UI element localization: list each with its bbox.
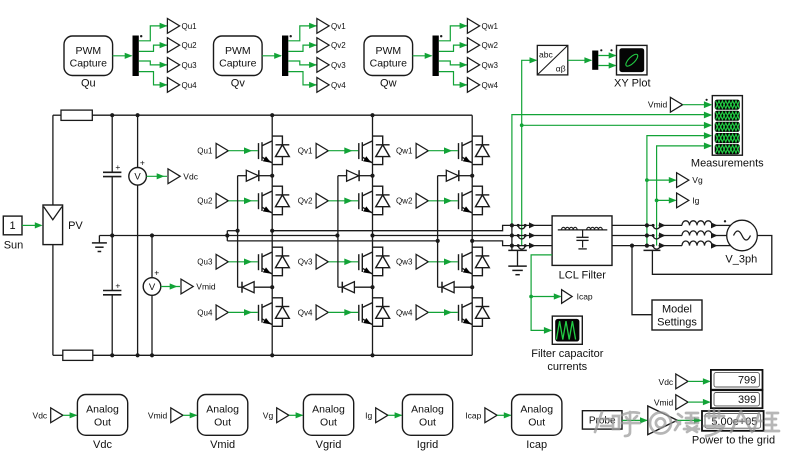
wire demux to tag Qv4 — [288, 72, 317, 85]
svg-text:PWM: PWM — [75, 45, 101, 57]
tap junction — [510, 233, 514, 237]
svg-text:currents: currents — [547, 361, 587, 373]
current sensor (grid side) — [653, 236, 660, 240]
voltage taps before LCL — [511, 225, 513, 250]
clamp diode Dw5 — [438, 175, 447, 177]
goto tag Qv2 — [317, 38, 329, 53]
svg-text:Out: Out — [320, 416, 337, 428]
clamp diode Du6 — [238, 286, 242, 288]
svg-text:Qu2: Qu2 — [182, 41, 198, 50]
wire neutral to leg-u clamp — [227, 230, 237, 232]
scope screen 5 with waveform — [715, 144, 740, 154]
wire demux to tag Qu2 — [139, 45, 168, 51]
wire to grid source — [718, 224, 731, 226]
svg-text:Icap: Icap — [526, 439, 547, 451]
phase v output line — [373, 235, 553, 237]
wire demux to XY plot X — [598, 55, 615, 57]
clamp diode Du5 — [238, 175, 247, 177]
svg-text:Settings: Settings — [657, 317, 697, 329]
wire Vdc to Analog Out — [63, 414, 77, 416]
gate wire Qw4 — [428, 311, 458, 313]
demux bar for Qu — [133, 36, 139, 77]
IGBT Qw2 with antiparallel diode — [459, 186, 490, 215]
svg-text:Qv1: Qv1 — [298, 147, 313, 156]
from tag Qw1 — [416, 143, 428, 158]
svg-text:Capture: Capture — [219, 58, 257, 70]
svg-text:Vgrid: Vgrid — [316, 439, 342, 451]
gate wire Qw3 — [428, 261, 458, 263]
wire neutral rail — [99, 235, 337, 237]
Analog Out block Igrid — [402, 395, 452, 436]
goto tag Qu1 — [167, 19, 179, 34]
junction neutral / Vmid — [150, 233, 154, 237]
ground (DC link midpoint) — [98, 236, 100, 243]
svg-text:Analog: Analog — [206, 404, 239, 416]
wire to grid source — [718, 245, 731, 247]
wire PV top to rail — [52, 115, 54, 205]
current sensor (inverter side) — [518, 236, 525, 240]
svg-text:Qw4: Qw4 — [396, 308, 413, 317]
from tag Qv4 — [316, 305, 328, 320]
scope screen 3 with waveform — [715, 122, 740, 132]
junction bottom rail / Vdc — [136, 353, 140, 357]
PV array block — [43, 205, 63, 245]
svg-text:abc: abc — [539, 50, 553, 60]
junction Icap branch — [529, 295, 533, 299]
measurement wire: grid voltage to Measurements 4 — [647, 136, 705, 246]
resistor R1 on top rail — [61, 110, 92, 120]
wire to grid source — [718, 235, 728, 237]
wire demux to tag Qw3 — [439, 61, 468, 65]
svg-text:Vdc: Vdc — [183, 171, 198, 181]
svg-text:Qu4: Qu4 — [182, 81, 198, 90]
wire to Ig tag — [657, 199, 676, 201]
Filter capacitor currents scope — [552, 316, 582, 344]
wire neutral to leg-w clamp — [227, 240, 437, 242]
svg-text:Icap: Icap — [465, 410, 481, 420]
junction Ig branch — [655, 199, 659, 203]
Model Settings block — [652, 300, 702, 330]
voltmeter Vmid — [151, 236, 153, 278]
Measurements scope block — [712, 96, 742, 156]
wire Qv to demux — [262, 55, 281, 57]
flow arrow — [659, 243, 666, 249]
svg-text:Qv2: Qv2 — [298, 197, 313, 206]
from tag Qu4 — [216, 305, 228, 320]
demux bar for Qw — [433, 36, 439, 77]
wire demux to tag Qw2 — [439, 45, 468, 51]
capacitor C1 (upper DC link) — [111, 115, 113, 172]
svg-text:Qw3: Qw3 — [396, 258, 413, 267]
svg-text:Analog: Analog — [411, 404, 444, 416]
phase w output line — [472, 241, 552, 246]
wire to Icap tag — [531, 296, 561, 298]
wire Qw to demux — [413, 55, 432, 57]
gate wire Qv2 — [328, 200, 358, 202]
svg-text:LCL Filter: LCL Filter — [559, 269, 607, 281]
svg-text:Vg: Vg — [263, 410, 274, 420]
svg-text:+: + — [115, 280, 120, 290]
PWM Capture block Qw — [364, 36, 413, 76]
clamp diode Dw6 — [438, 286, 442, 288]
svg-text:Qu1: Qu1 — [197, 147, 213, 156]
svg-text:Out: Out — [419, 416, 436, 428]
from tag Qu2 — [216, 193, 228, 208]
ground (filter sensor reference) — [508, 249, 527, 251]
svg-text:Measurements: Measurements — [691, 157, 764, 169]
svg-text:Vmid: Vmid — [654, 398, 674, 408]
wire top rail — [53, 114, 61, 116]
svg-text:Qw3: Qw3 — [482, 61, 499, 70]
leg w chain wire — [471, 115, 473, 355]
svg-text:Out: Out — [94, 416, 111, 428]
grid neutral return wire — [652, 236, 771, 275]
IGBT Qu3 with antiparallel diode — [259, 247, 290, 276]
tap junction — [510, 244, 514, 248]
wire bottom rail — [53, 354, 63, 356]
display Power value — [702, 411, 764, 431]
PWM Capture block Qv — [214, 36, 263, 76]
from tag Qu1 — [216, 143, 228, 158]
flow arrow — [529, 233, 536, 239]
goto tag Icap — [562, 290, 573, 304]
display Vmid value 399 — [711, 390, 763, 408]
svg-text:PWM: PWM — [225, 45, 251, 57]
wire demux to tag Qw4 — [439, 72, 468, 85]
leg v chain wire — [372, 115, 374, 355]
svg-text:Ig: Ig — [365, 410, 372, 420]
goto tag Qu2 — [167, 38, 179, 53]
svg-text:+: + — [154, 268, 159, 278]
wire demux to tag Qu1 — [139, 26, 168, 41]
clamp diode Dv6 — [338, 286, 342, 288]
from tag Qv3 — [316, 254, 328, 269]
clamp rail leg w — [437, 176, 439, 288]
svg-text:Qw1: Qw1 — [396, 147, 413, 156]
flow arrow — [529, 243, 536, 249]
wire demux to tag Qu3 — [139, 61, 168, 65]
wire demux to tag Qw1 — [439, 26, 468, 41]
junction bottom rail — [270, 353, 274, 357]
wire abc to demux bar — [568, 59, 591, 61]
goto tag Qv1 — [317, 19, 329, 34]
node between Q3/Q4 — [270, 285, 274, 289]
svg-text:Ig: Ig — [692, 195, 699, 205]
IGBT Qw4 with antiparallel diode — [459, 298, 490, 327]
Probe block — [582, 411, 622, 429]
wire demux to tag Qu4 — [139, 72, 168, 85]
junction neutral at leg-u clamp — [236, 229, 240, 233]
clamp rail leg u — [237, 176, 239, 288]
svg-text:Qv3: Qv3 — [298, 258, 313, 267]
svg-text:399: 399 — [738, 394, 756, 406]
svg-text:Capture: Capture — [370, 58, 408, 70]
flow arrow — [711, 233, 718, 239]
gain block (power scaling) — [648, 406, 677, 435]
node between Q1/Q2 — [270, 174, 274, 178]
wire Vmid to display — [688, 401, 704, 403]
svg-text:Vdc: Vdc — [659, 377, 674, 387]
IGBT Qu4 with antiparallel diode — [259, 298, 290, 327]
junction top rail — [370, 113, 374, 117]
junction bottom rail / Vmid — [150, 353, 154, 357]
junction neutral at leg-w clamp — [436, 239, 440, 243]
svg-text:Analog: Analog — [86, 404, 119, 416]
node between Q3/Q4 — [370, 285, 374, 289]
svg-text:V: V — [134, 172, 141, 183]
svg-text:αβ: αβ — [556, 64, 566, 74]
goto tag Qv4 — [317, 78, 329, 93]
IGBT Qv2 with antiparallel diode — [359, 186, 390, 215]
IGBT Qv1 with antiparallel diode — [359, 136, 390, 165]
goto tag Ig — [677, 193, 689, 208]
tap junction (grid) — [645, 244, 649, 248]
wire Vdc meter to tag — [146, 175, 167, 177]
wire Vdc to display — [688, 380, 704, 382]
svg-text:Power to the grid: Power to the grid — [692, 435, 775, 447]
junction top rail / C1 — [110, 113, 114, 117]
svg-text:Vmid: Vmid — [196, 282, 216, 292]
IGBT Qu1 with antiparallel diode — [259, 136, 290, 165]
svg-text:Model: Model — [662, 304, 692, 316]
scope screen 2 with waveform — [715, 111, 740, 121]
from tag Vmid — [670, 97, 682, 112]
wire Qu to demux — [113, 55, 132, 57]
gate wire Qw1 — [428, 150, 458, 152]
from tag Qv1 — [316, 143, 328, 158]
junction on measurement wire — [520, 123, 524, 127]
svg-text:Vg: Vg — [692, 175, 703, 185]
measurement wire: sensor bus up to abc block, branch to Measurements 3 — [522, 60, 537, 245]
svg-text:XY Plot: XY Plot — [614, 78, 651, 90]
wire demux to tag Qv2 — [288, 45, 317, 51]
svg-text:Vdc: Vdc — [93, 439, 112, 451]
display Vdc value 799 — [711, 370, 763, 390]
junction bottom rail / C2 — [110, 353, 114, 357]
svg-text:Qu3: Qu3 — [197, 258, 213, 267]
input block Sun (constant 1) — [3, 216, 22, 235]
gate wire Qw2 — [428, 200, 458, 202]
flow arrow — [659, 233, 666, 239]
goto tag Qu4 — [167, 78, 179, 93]
voltmeter Vdc — [137, 115, 139, 167]
goto tag Qw4 — [467, 78, 479, 93]
Icap measurement wire from LCL Filter — [531, 255, 552, 331]
node between Q1/Q2 — [370, 174, 374, 178]
svg-text:PV: PV — [68, 220, 83, 232]
goto tag Vmid (meter) — [181, 279, 193, 294]
svg-text:+: + — [140, 157, 145, 167]
tap junction — [510, 223, 514, 227]
wire Vmid to Analog Out — [183, 414, 197, 416]
Analog Out block Vdc — [77, 395, 127, 436]
wire Icap to Analog Out — [497, 414, 511, 416]
wire to Model Settings (solver) — [630, 244, 634, 248]
svg-text:Qv3: Qv3 — [331, 61, 346, 70]
from tag Qw2 — [416, 193, 428, 208]
svg-text:V_3ph: V_3ph — [725, 254, 757, 266]
three-phase grid source V_3ph — [727, 220, 758, 251]
from tag Qw4 — [416, 305, 428, 320]
svg-text:Qw: Qw — [380, 78, 397, 90]
wire demux to tag Qv3 — [288, 61, 317, 65]
svg-text:Qw4: Qw4 — [482, 81, 499, 90]
wire demux to XY plot Y — [598, 65, 615, 67]
wire Probe to gain — [622, 419, 647, 421]
gate wire Qv3 — [328, 261, 358, 263]
XY Plot scope — [617, 45, 648, 75]
tap junction (grid) — [645, 223, 649, 227]
gate wire Qu1 — [228, 150, 257, 152]
from tag Qv2 — [316, 193, 328, 208]
svg-text:Qu3: Qu3 — [182, 61, 198, 70]
wire top rail — [92, 114, 472, 116]
output node phase v — [370, 233, 374, 237]
LCL Filter block — [552, 216, 612, 266]
gate wire Qv4 — [328, 311, 358, 313]
goto tag Qu3 — [167, 58, 179, 73]
wire to Vg tag — [647, 179, 676, 181]
Analog Out block Vmid — [198, 395, 248, 436]
wire Vmid meter to tag — [161, 286, 180, 288]
junction top rail — [270, 113, 274, 117]
svg-text:Qw2: Qw2 — [396, 197, 413, 206]
gate wire Qv1 — [328, 150, 358, 152]
svg-text:Qw1: Qw1 — [482, 22, 499, 31]
inductor (grid coupling) — [682, 241, 712, 246]
wire bottom rail — [93, 354, 472, 356]
svg-text:Qv1: Qv1 — [331, 22, 346, 31]
PWM Capture block Qu — [64, 36, 113, 76]
svg-text:Icap: Icap — [577, 292, 593, 302]
Analog Out block Vgrid — [303, 395, 353, 436]
svg-text:Qv4: Qv4 — [331, 81, 346, 90]
tap junction (grid) — [645, 233, 649, 237]
svg-text:799: 799 — [738, 375, 756, 387]
svg-text:Analog: Analog — [520, 404, 553, 416]
current sensor (grid side) — [653, 225, 660, 229]
phase u output line — [272, 225, 552, 230]
wire PV bottom to rail — [52, 245, 54, 356]
IGBT Qw3 with antiparallel diode — [459, 247, 490, 276]
grid lines after LCL — [612, 224, 647, 226]
svg-text:Qu4: Qu4 — [197, 308, 213, 317]
node between Q1/Q2 — [470, 174, 474, 178]
flow arrow — [711, 222, 718, 228]
goto tag Qw1 — [467, 19, 479, 34]
wire gain to display — [677, 419, 695, 421]
svg-text:Filter capacitor: Filter capacitor — [531, 348, 603, 360]
junction neutral / C1 — [110, 233, 114, 237]
current sensor (grid side) — [653, 246, 660, 250]
watermark (Zhihu user) — [595, 410, 779, 436]
IGBT Qu2 with antiparallel diode — [259, 186, 290, 215]
goto tag Qw3 — [467, 58, 479, 73]
from tag Qw3 — [416, 254, 428, 269]
gate wire Qu2 — [228, 200, 257, 202]
IGBT Qw1 with antiparallel diode — [459, 136, 490, 165]
junction neutral at leg-v clamp — [335, 233, 339, 237]
flow arrow — [711, 243, 718, 249]
wire branch to Measurements 3 — [522, 124, 705, 126]
measurement wire: grid current to Measurements 5 — [657, 146, 705, 246]
clamp rail leg v — [337, 176, 339, 288]
Analog Out block Icap — [512, 395, 562, 436]
current sensor (inverter side) — [518, 246, 525, 250]
demux bar for XY plot — [592, 51, 598, 70]
capacitor C2 (lower DC link) — [111, 236, 113, 291]
svg-text:Vdc: Vdc — [33, 410, 48, 420]
svg-text:Qu1: Qu1 — [182, 22, 198, 31]
wire Sun to PV — [22, 224, 35, 226]
svg-text:1: 1 — [10, 220, 16, 232]
from tag Qu3 — [216, 254, 228, 269]
leg u chain wire — [271, 115, 273, 355]
svg-text:Analog: Analog — [312, 404, 345, 416]
goto tag Qw2 — [467, 38, 479, 53]
clamp diode Dv5 — [338, 175, 347, 177]
svg-text:Sun: Sun — [4, 239, 24, 251]
wire Vg to Analog Out — [289, 414, 303, 416]
abc/alphabeta transform block U_abc2ab — [537, 45, 568, 75]
flow arrow — [529, 222, 536, 228]
demux bar for Qv — [282, 36, 288, 77]
scope screen 4 with waveform — [715, 133, 740, 143]
scope screen 1 with waveform — [715, 100, 740, 110]
wire demux to tag Qv1 — [288, 26, 317, 41]
junction neutral rail — [225, 233, 229, 237]
svg-text:Capture: Capture — [70, 58, 108, 70]
gate wire Qu4 — [228, 311, 257, 313]
resistor R2 on bottom rail — [63, 350, 93, 360]
svg-text:Vmid: Vmid — [648, 100, 668, 110]
junction top rail / Vdc — [136, 113, 140, 117]
goto tag Qv3 — [317, 58, 329, 73]
output node phase u — [270, 229, 274, 233]
svg-text:Qw2: Qw2 — [482, 41, 499, 50]
svg-text:Qu: Qu — [81, 78, 96, 90]
goto tag Vdc (meter) — [168, 169, 180, 184]
junction Vg branch — [645, 178, 649, 182]
svg-text:Qv4: Qv4 — [298, 308, 313, 317]
neutral reference bar — [644, 249, 661, 251]
node between Q3/Q4 — [470, 285, 474, 289]
junction bottom rail — [370, 353, 374, 357]
svg-text:V: V — [149, 282, 156, 293]
svg-text:Out: Out — [528, 416, 545, 428]
svg-text:+: + — [115, 162, 120, 172]
svg-text:Qu2: Qu2 — [197, 197, 213, 206]
IGBT Qv3 with antiparallel diode — [359, 247, 390, 276]
inductor (grid coupling) — [682, 221, 712, 226]
svg-text:Qv: Qv — [231, 78, 246, 90]
wire Vmid to Measurements 1 — [683, 104, 705, 106]
svg-text:Vmid: Vmid — [148, 410, 168, 420]
gate wire Qu3 — [228, 261, 257, 263]
goto tag Vg — [677, 173, 689, 188]
current sensor (inverter side) — [518, 225, 525, 229]
flow arrow — [659, 222, 666, 228]
inductor (grid coupling) — [682, 231, 712, 236]
svg-text:Out: Out — [214, 416, 231, 428]
IGBT Qv4 with antiparallel diode — [359, 298, 390, 327]
measurement wire: inverter voltage to Measurements 2 — [512, 115, 705, 226]
svg-text:Qv2: Qv2 — [331, 41, 346, 50]
svg-text:Igrid: Igrid — [417, 439, 438, 451]
output node phase w — [470, 239, 474, 243]
svg-text:PWM: PWM — [375, 45, 401, 57]
svg-text:Vmid: Vmid — [210, 439, 235, 451]
